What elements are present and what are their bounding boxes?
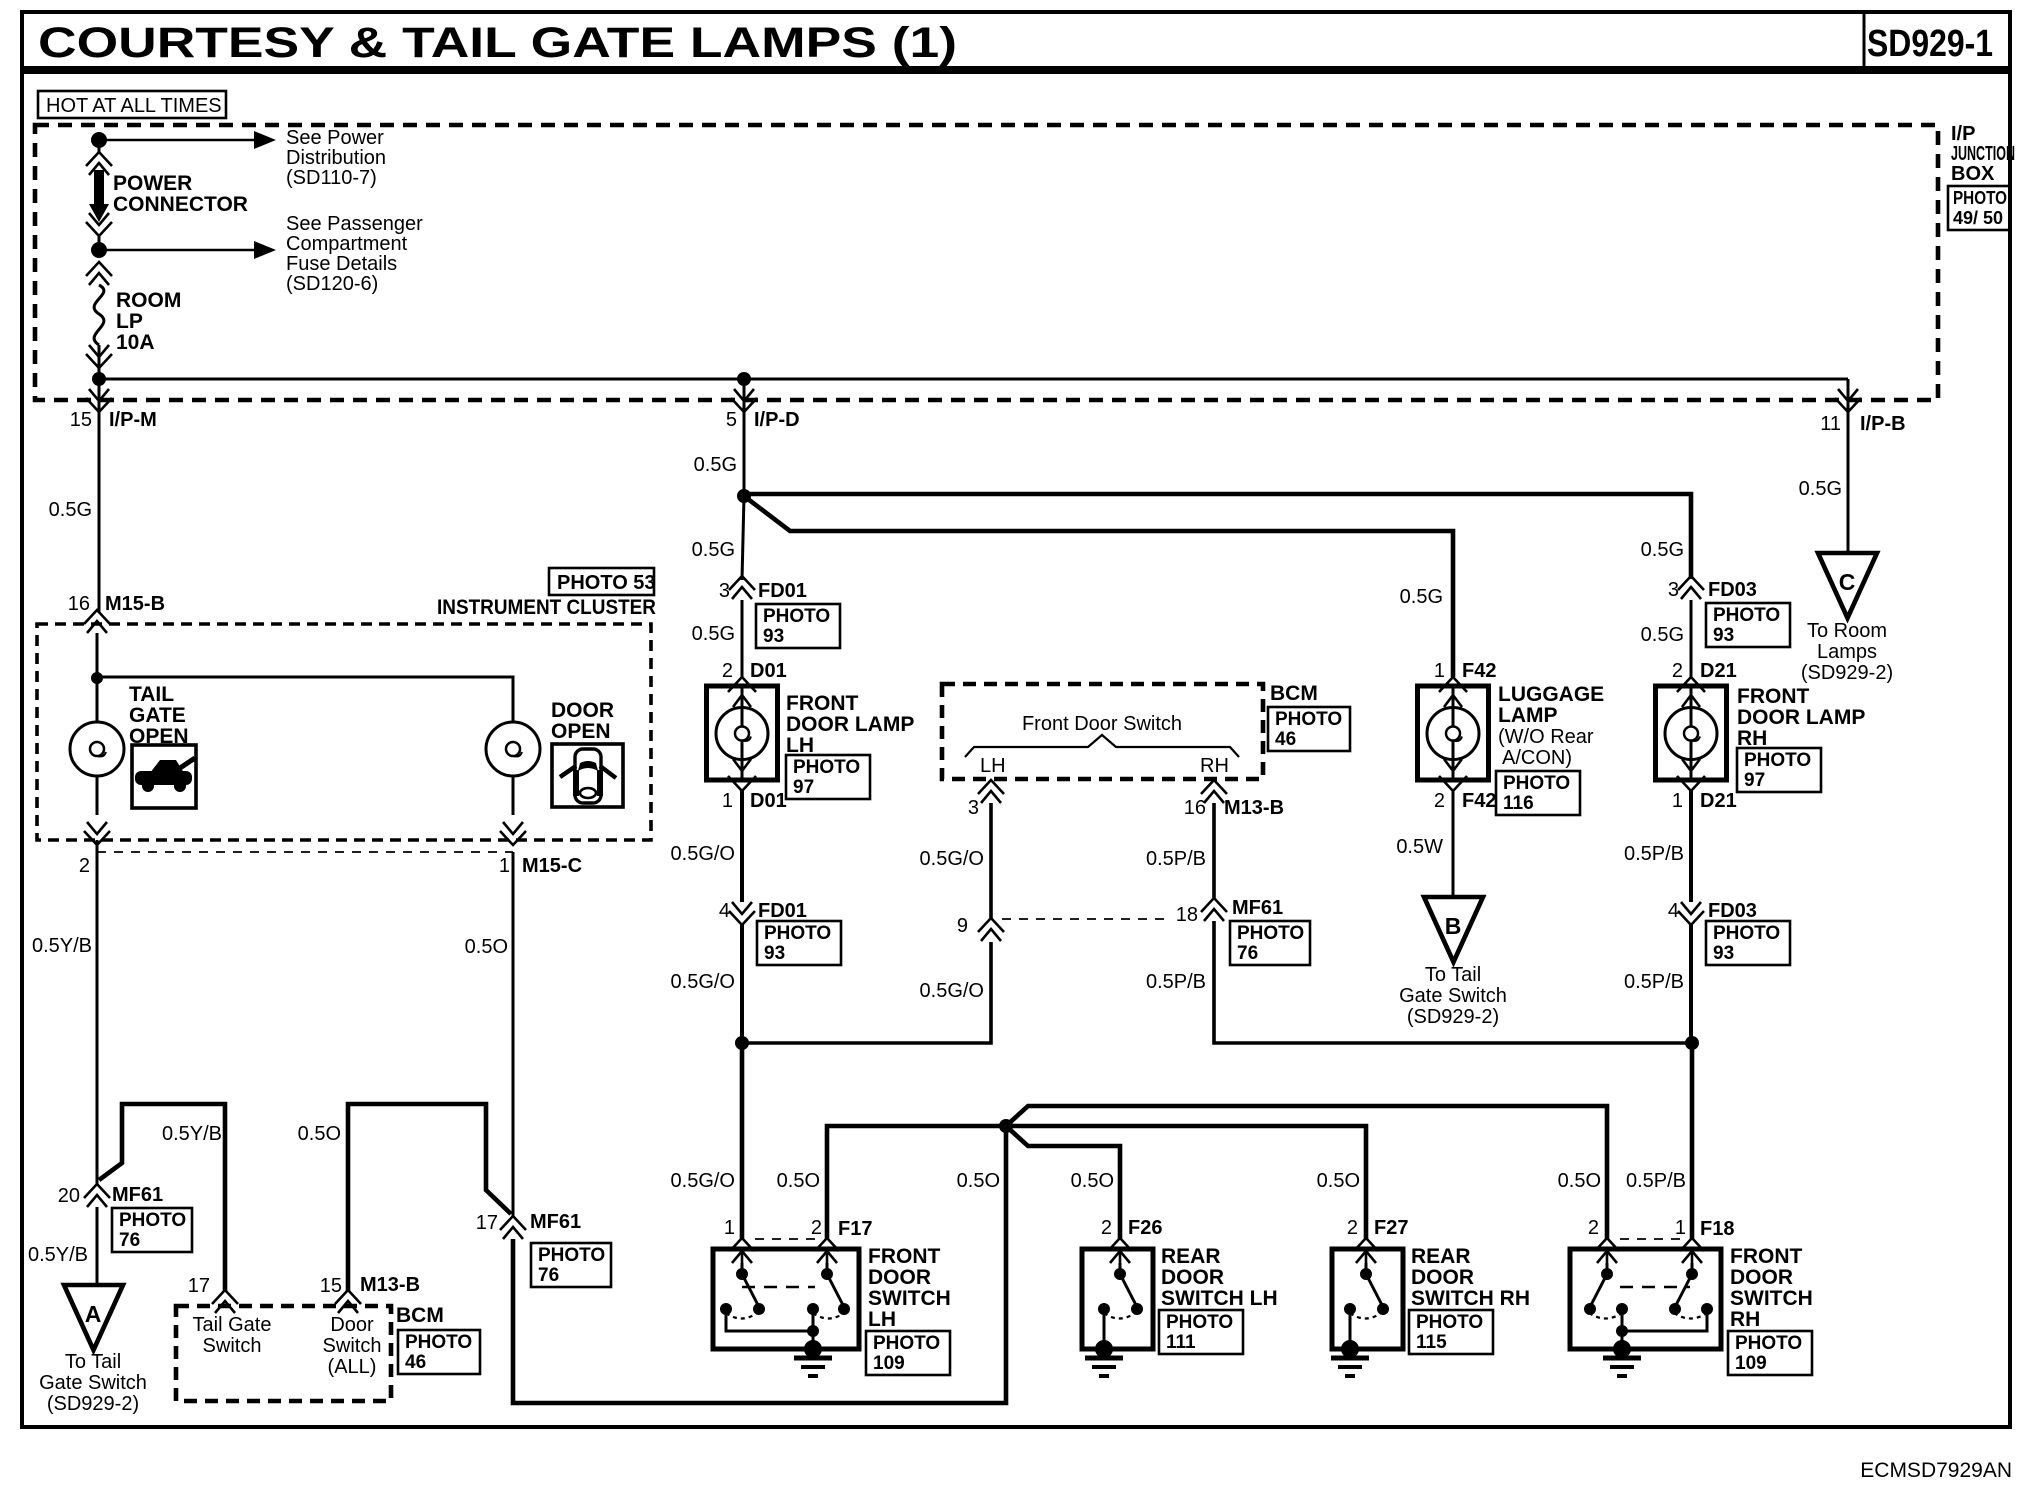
svg-text:FD01: FD01: [758, 900, 807, 922]
svg-text:0.5P/B: 0.5P/B: [1624, 971, 1684, 993]
svg-text:0.5O: 0.5O: [777, 1170, 820, 1192]
svg-text:76: 76: [119, 1230, 140, 1251]
svg-text:REAR: REAR: [1161, 1245, 1221, 1268]
node: door switch star junction: [999, 1119, 1013, 1133]
svg-text:SD929-1: SD929-1: [1867, 23, 1993, 65]
svg-text:D21: D21: [1700, 660, 1737, 682]
svg-text:DOOR LAMP: DOOR LAMP: [1737, 706, 1865, 729]
svg-text:PHOTO 53: PHOTO 53: [557, 572, 656, 594]
wire to F17 pin 2: [827, 1126, 1006, 1240]
lamp FRONT DOOR LAMP RH: [1656, 686, 1727, 780]
svg-text:2: 2: [811, 1217, 822, 1239]
pin 17: [212, 1290, 238, 1304]
brace: [965, 735, 1239, 757]
svg-text:109: 109: [873, 1353, 905, 1374]
svg-text:DOOR LAMP: DOOR LAMP: [786, 713, 914, 736]
svg-text:SWITCH LH: SWITCH LH: [1161, 1287, 1278, 1310]
off-page triangle A: [64, 1285, 123, 1350]
svg-text:(SD929-2): (SD929-2): [1407, 1006, 1499, 1028]
svg-text:0.5Y/B: 0.5Y/B: [28, 1244, 88, 1266]
svg-text:F42: F42: [1462, 660, 1496, 682]
wire 0.5G from I/P-D: [743, 412, 746, 496]
svg-text:SWITCH: SWITCH: [868, 1287, 951, 1310]
HOT AT ALL TIMES label: [38, 91, 226, 118]
connector I/P-B pin 11: [1847, 379, 1850, 412]
svg-text:0.5G: 0.5G: [1799, 478, 1842, 500]
photo ref 49/50: [1948, 186, 2010, 230]
connector I/P-D pin 5: [743, 379, 746, 412]
svg-text:LH: LH: [868, 1308, 896, 1331]
connector M15-C group dash: [97, 851, 513, 853]
svg-text:PHOTO: PHOTO: [1713, 923, 1780, 944]
svg-text:I/P-B: I/P-B: [1860, 413, 1906, 435]
svg-text:1: 1: [1672, 790, 1683, 812]
svg-text:LUGGAGE: LUGGAGE: [1498, 683, 1604, 706]
ground G (F26): [1095, 1340, 1113, 1358]
F17 pin 1: [730, 1238, 754, 1251]
wire from BCM pin 3 joins: [742, 942, 991, 1043]
svg-text:0.5P/B: 0.5P/B: [1146, 848, 1206, 870]
svg-text:2: 2: [1101, 1217, 1112, 1239]
node: LH switch feed junction: [735, 1036, 749, 1050]
ground G (F27): [1341, 1340, 1359, 1358]
svg-text:3: 3: [719, 580, 730, 602]
svg-text:A/CON): A/CON): [1502, 747, 1572, 769]
svg-text:3: 3: [1668, 579, 1679, 601]
svg-text:Distribution: Distribution: [286, 147, 386, 169]
svg-text:PHOTO: PHOTO: [405, 1332, 472, 1353]
connector I/P-M pin 15: [98, 379, 101, 412]
connector FD01 pin 3: [729, 576, 755, 590]
svg-text:BOX: BOX: [1951, 163, 1995, 185]
svg-text:(W/O Rear: (W/O Rear: [1498, 726, 1594, 748]
svg-text:C: C: [1839, 569, 1856, 595]
node: RH switch feed junction: [1685, 1036, 1699, 1050]
svg-text:FD03: FD03: [1708, 900, 1757, 922]
svg-text:SWITCH: SWITCH: [1730, 1287, 1813, 1310]
F26 pin 2: [1108, 1238, 1132, 1251]
svg-text:PHOTO: PHOTO: [1735, 1333, 1802, 1354]
svg-text:POWER: POWER: [113, 172, 192, 195]
F27 contacts: [1344, 1303, 1356, 1315]
svg-text:20: 20: [58, 1185, 80, 1207]
svg-text:0.5P/B: 0.5P/B: [1146, 971, 1206, 993]
svg-text:0.5G/O: 0.5G/O: [671, 1170, 735, 1192]
svg-text:OPEN: OPEN: [551, 720, 611, 743]
svg-text:PHOTO: PHOTO: [119, 1210, 186, 1231]
svg-text:ROOM: ROOM: [116, 289, 181, 312]
cluster exit chevrons: [84, 831, 110, 845]
node: main bus junction: [92, 372, 106, 386]
BCM pin 16 M13-B: [1201, 780, 1227, 794]
wire: arrow to See Power Distribution: [99, 139, 254, 142]
svg-text:0.5O: 0.5O: [957, 1170, 1000, 1192]
svg-text:SWITCH RH: SWITCH RH: [1411, 1287, 1530, 1310]
svg-text:A: A: [85, 1301, 102, 1327]
pin 15 M13-B: [335, 1290, 361, 1304]
svg-text:F27: F27: [1374, 1217, 1408, 1239]
photo ref 53: [549, 568, 654, 595]
svg-text:(SD929-2): (SD929-2): [47, 1393, 139, 1415]
svg-text:I/P-D: I/P-D: [754, 409, 800, 431]
wire to door open lamp: [97, 677, 513, 722]
connector MF61 pin 9: [978, 918, 1004, 932]
fuse ROOM LP 10A: [86, 262, 112, 276]
wire down to F17: [740, 1043, 745, 1240]
svg-text:0.5O: 0.5O: [298, 1123, 341, 1145]
wire 0.5G to M15-B: [98, 412, 101, 612]
svg-text:See Power: See Power: [286, 127, 384, 149]
svg-text:0.5G: 0.5G: [694, 454, 737, 476]
svg-text:MF61: MF61: [530, 1211, 581, 1233]
wire 0.5G to C: [1847, 412, 1850, 553]
svg-text:BCM: BCM: [396, 1304, 444, 1327]
svg-text:Gate Switch: Gate Switch: [1399, 985, 1507, 1007]
svg-text:Switch: Switch: [323, 1335, 382, 1357]
connector MF61 pin 18: [1201, 898, 1227, 912]
F26 pole blade: [1119, 1263, 1122, 1274]
F17 pole 2 blade: [826, 1263, 829, 1274]
svg-text:16: 16: [1184, 797, 1206, 819]
svg-text:0.5G/O: 0.5G/O: [920, 848, 984, 870]
F27 pole blade: [1365, 1263, 1368, 1274]
svg-text:109: 109: [1735, 1353, 1767, 1374]
svg-text:3: 3: [968, 797, 979, 819]
lamp DOOR OPEN: [512, 722, 515, 815]
F18 pole 2 blade: [1606, 1263, 1609, 1274]
switch REAR DOOR SWITCH LH (F26): [1082, 1249, 1153, 1349]
connector FD03 pin 3: [1678, 576, 1704, 590]
F27 pin 2: [1354, 1238, 1378, 1251]
svg-text:LP: LP: [116, 310, 143, 333]
svg-text:To Tail: To Tail: [1425, 964, 1481, 986]
svg-text:PHOTO: PHOTO: [1275, 709, 1342, 730]
connector D01 pin 1: [728, 776, 756, 791]
F17 pin 2: [815, 1238, 839, 1251]
wire 0.5O from cluster: [512, 852, 515, 1216]
wire to F18 pin 2: [1006, 1106, 1607, 1240]
wire: main power bus: [99, 378, 1848, 381]
svg-text:HOT AT ALL TIMES: HOT AT ALL TIMES: [46, 95, 222, 117]
svg-text:1: 1: [499, 855, 510, 877]
svg-text:9: 9: [957, 915, 968, 937]
node: cluster branch junction: [91, 672, 103, 684]
svg-text:0.5P/B: 0.5P/B: [1626, 1170, 1686, 1192]
lamp LUGGAGE LAMP: [1418, 686, 1489, 780]
svg-text:0.5P/B: 0.5P/B: [1624, 843, 1684, 865]
F17 linkage (dashed): [742, 1286, 815, 1289]
svg-text:0.5O: 0.5O: [1317, 1170, 1360, 1192]
svg-text:0.5W: 0.5W: [1396, 836, 1443, 858]
F18 pin 2: [1595, 1238, 1619, 1251]
svg-text:BCM: BCM: [1270, 682, 1318, 705]
svg-text:Compartment: Compartment: [286, 233, 408, 255]
svg-text:Switch: Switch: [203, 1335, 262, 1357]
svg-text:76: 76: [538, 1265, 559, 1286]
connector D21 pin 1: [1677, 776, 1705, 791]
svg-text:1: 1: [1434, 660, 1445, 682]
BCM pin 3: [978, 780, 1004, 794]
svg-text:116: 116: [1503, 793, 1534, 814]
svg-text:F26: F26: [1128, 1217, 1162, 1239]
svg-text:FRONT: FRONT: [1737, 685, 1809, 708]
svg-text:18: 18: [1176, 904, 1198, 926]
svg-text:See Passenger: See Passenger: [286, 213, 423, 235]
svg-text:0.5G/O: 0.5G/O: [920, 980, 984, 1002]
svg-text:F42: F42: [1462, 790, 1496, 812]
svg-text:115: 115: [1416, 1332, 1447, 1353]
svg-text:97: 97: [793, 777, 814, 798]
svg-text:93: 93: [1713, 943, 1734, 964]
svg-text:COURTESY & TAIL GATE LAMPS (1): COURTESY & TAIL GATE LAMPS (1): [38, 19, 957, 67]
svg-text:0.5G/O: 0.5G/O: [671, 843, 735, 865]
svg-text:RH: RH: [1200, 755, 1229, 777]
svg-text:RH: RH: [1737, 727, 1767, 750]
connector D01 pin 2: [728, 677, 756, 692]
wire branch to front door lamp RH: [744, 494, 1691, 579]
wire 0.5G/O from pin 3: [989, 803, 993, 918]
ground G (F17): [804, 1340, 822, 1358]
svg-text:M13-B: M13-B: [1224, 797, 1284, 819]
wire to F26 pin 2: [1006, 1126, 1120, 1240]
connector D21 pin 2: [1677, 677, 1705, 692]
svg-text:17: 17: [188, 1275, 210, 1297]
svg-text:2: 2: [1434, 790, 1445, 812]
svg-text:2: 2: [79, 855, 90, 877]
svg-text:0.5O: 0.5O: [1558, 1170, 1601, 1192]
icon: door open car: [552, 744, 623, 807]
svg-text:FRONT: FRONT: [786, 692, 858, 715]
svg-text:17: 17: [476, 1212, 498, 1234]
switch REAR DOOR SWITCH RH (F27): [1332, 1249, 1403, 1349]
svg-text:To Tail: To Tail: [65, 1351, 121, 1373]
svg-text:0.5G: 0.5G: [1641, 624, 1684, 646]
svg-text:D01: D01: [750, 660, 787, 682]
svg-text:0.5G: 0.5G: [692, 623, 735, 645]
wire down to F18 pin 1: [1690, 1043, 1695, 1240]
wire to RH junction: [1214, 921, 1692, 1043]
svg-text:76: 76: [1237, 943, 1258, 964]
svg-text:46: 46: [405, 1352, 426, 1373]
svg-text:1: 1: [722, 790, 733, 812]
F18 pole 1 blade: [1691, 1263, 1694, 1274]
svg-text:PHOTO: PHOTO: [1166, 1312, 1233, 1333]
svg-text:JUNCTION: JUNCTION: [1951, 143, 2015, 165]
wire 0.5P/B from pin 16: [1212, 803, 1216, 898]
svg-text:DOOR: DOOR: [1730, 1266, 1793, 1289]
connector MF61 pin 17: [500, 1216, 526, 1230]
lamp TAIL GATE OPEN: [96, 678, 99, 815]
svg-text:M13-B: M13-B: [360, 1274, 420, 1296]
svg-text:Tail Gate: Tail Gate: [193, 1314, 272, 1336]
svg-text:MF61: MF61: [1232, 897, 1283, 919]
F18 linkage (dashed): [1620, 1286, 1690, 1289]
svg-text:F17: F17: [838, 1218, 872, 1240]
svg-text:DOOR: DOOR: [868, 1266, 931, 1289]
svg-text:Door: Door: [330, 1314, 374, 1336]
BCM pin15 hook wire: [348, 1104, 511, 1292]
BCM box (dashed): [176, 1306, 391, 1401]
svg-text:2: 2: [1672, 660, 1683, 682]
svg-text:PHOTO: PHOTO: [1953, 188, 2007, 208]
svg-text:To Room: To Room: [1807, 620, 1887, 642]
svg-text:FRONT: FRONT: [1730, 1245, 1802, 1268]
svg-text:PHOTO: PHOTO: [764, 923, 831, 944]
icon: tail gate open car: [132, 745, 196, 808]
svg-text:15: 15: [70, 409, 92, 431]
ground G (F18): [1613, 1340, 1631, 1358]
svg-text:Gate Switch: Gate Switch: [39, 1372, 147, 1394]
svg-text:93: 93: [763, 626, 784, 647]
svg-text:0.5G: 0.5G: [49, 499, 92, 521]
svg-text:PHOTO: PHOTO: [1713, 605, 1780, 626]
connector FD03 pin 4: [1678, 911, 1704, 925]
I/P junction box (dashed): [35, 125, 1938, 400]
BCM front door switch box (dashed): [942, 684, 1263, 779]
svg-text:RH: RH: [1730, 1308, 1760, 1331]
svg-text:DOOR: DOOR: [551, 699, 614, 722]
svg-text:FD03: FD03: [1708, 579, 1757, 601]
connector F42 pin 2: [1439, 776, 1467, 791]
F18 internal wire: [1622, 1309, 1707, 1331]
svg-text:93: 93: [764, 943, 785, 964]
node: fuse feed junction: [91, 242, 107, 258]
F18 contacts: [1616, 1303, 1628, 1315]
svg-text:MF61: MF61: [112, 1184, 163, 1206]
F26 contacts: [1098, 1303, 1110, 1315]
svg-text:LH: LH: [980, 755, 1006, 777]
svg-text:46: 46: [1275, 729, 1296, 750]
power connector symbol: [86, 152, 112, 166]
svg-text:TAIL: TAIL: [129, 683, 174, 706]
F18 pin 1: [1680, 1238, 1704, 1251]
svg-text:0.5O: 0.5O: [1071, 1170, 1114, 1192]
svg-text:ECMSD7929AN: ECMSD7929AN: [1860, 1459, 2012, 1482]
svg-text:0.5G: 0.5G: [692, 539, 735, 561]
svg-text:FD01: FD01: [758, 580, 807, 602]
svg-text:FRONT: FRONT: [868, 1245, 940, 1268]
svg-text:1: 1: [724, 1217, 735, 1239]
F17 internal wire: [726, 1309, 813, 1331]
svg-text:REAR: REAR: [1411, 1245, 1471, 1268]
wire 0.5Y/B: [96, 852, 99, 1184]
svg-text:0.5G/O: 0.5G/O: [671, 971, 735, 993]
F17 contacts: [720, 1303, 732, 1315]
svg-text:B: B: [1445, 913, 1462, 939]
svg-text:PHOTO: PHOTO: [1744, 750, 1811, 771]
svg-text:PHOTO: PHOTO: [873, 1333, 940, 1354]
svg-text:LAMP: LAMP: [1498, 704, 1558, 727]
svg-text:PHOTO: PHOTO: [1503, 773, 1570, 794]
hook wire to BCM pin 17: [99, 1104, 225, 1292]
svg-text:D01: D01: [750, 790, 787, 812]
svg-text:M15-C: M15-C: [522, 855, 582, 877]
svg-text:49/ 50: 49/ 50: [1953, 208, 2003, 228]
svg-text:GATE: GATE: [129, 704, 186, 727]
wire branch to luggage lamp: [744, 496, 1453, 677]
svg-text:0.5O: 0.5O: [465, 936, 508, 958]
svg-text:2: 2: [722, 660, 733, 682]
svg-text:PHOTO: PHOTO: [1237, 923, 1304, 944]
wire: arrow to fuse details note: [99, 249, 254, 252]
svg-text:I/P-M: I/P-M: [109, 409, 157, 431]
svg-text:97: 97: [1744, 770, 1765, 791]
F17 pole 1 blade: [741, 1263, 744, 1274]
svg-text:(ALL): (ALL): [328, 1356, 377, 1378]
svg-text:PHOTO: PHOTO: [538, 1245, 605, 1266]
svg-text:PHOTO: PHOTO: [1416, 1312, 1483, 1333]
svg-text:2: 2: [1347, 1217, 1358, 1239]
wire to bottom run: [513, 1126, 1006, 1403]
wire segment: [98, 236, 101, 250]
svg-text:(SD110-7): (SD110-7): [286, 167, 377, 189]
svg-text:5: 5: [726, 409, 737, 431]
connector F42 pin 1: [1439, 677, 1467, 692]
wire 0.5G: [742, 496, 744, 580]
svg-text:CONNECTOR: CONNECTOR: [113, 193, 248, 216]
off-page triangle B: [1424, 897, 1483, 962]
svg-text:PHOTO: PHOTO: [763, 606, 830, 627]
wire to F27 pin 2: [1006, 1126, 1366, 1240]
off-page triangle C: [1818, 553, 1877, 618]
svg-text:11: 11: [1820, 413, 1841, 435]
svg-text:0.5G: 0.5G: [1400, 586, 1443, 608]
svg-text:111: 111: [1166, 1332, 1196, 1353]
svg-text:0.5Y/B: 0.5Y/B: [162, 1123, 222, 1145]
svg-text:93: 93: [1713, 625, 1734, 646]
svg-text:Fuse Details: Fuse Details: [286, 253, 397, 275]
svg-text:DOOR: DOOR: [1161, 1266, 1224, 1289]
svg-text:2: 2: [1588, 1217, 1599, 1239]
svg-text:INSTRUMENT CLUSTER: INSTRUMENT CLUSTER: [437, 596, 656, 619]
connector FD01 pin 4: [729, 911, 755, 925]
lamp FRONT DOOR LAMP LH: [707, 686, 778, 780]
svg-text:Front Door Switch: Front Door Switch: [1022, 713, 1182, 735]
svg-text:0.5G: 0.5G: [1641, 539, 1684, 561]
svg-text:M15-B: M15-B: [105, 593, 165, 615]
node: 0.5G distribution junction: [737, 489, 751, 503]
svg-text:0.5Y/B: 0.5Y/B: [32, 935, 92, 957]
svg-text:Lamps: Lamps: [1817, 641, 1877, 663]
svg-text:(SD929-2): (SD929-2): [1801, 662, 1893, 684]
svg-text:I/P: I/P: [1951, 123, 1975, 145]
svg-text:15: 15: [320, 1275, 342, 1297]
switch FRONT DOOR SWITCH LH (F17): [713, 1249, 859, 1349]
svg-text:4: 4: [1668, 900, 1679, 922]
connector M15-B pin 16: [84, 610, 110, 624]
svg-text:4: 4: [719, 900, 730, 922]
svg-text:LH: LH: [786, 734, 814, 757]
svg-text:10A: 10A: [116, 331, 155, 354]
svg-text:16: 16: [68, 593, 90, 615]
svg-text:PHOTO: PHOTO: [793, 757, 860, 778]
svg-text:DOOR: DOOR: [1411, 1266, 1474, 1289]
connector MF61 pin 20: [84, 1184, 110, 1198]
svg-text:(SD120-6): (SD120-6): [286, 273, 378, 295]
instrument cluster box (dashed): [37, 624, 651, 840]
node: hot feed junction: [98, 140, 101, 152]
svg-text:1: 1: [1675, 1217, 1686, 1239]
svg-text:F18: F18: [1700, 1218, 1734, 1240]
svg-text:D21: D21: [1700, 790, 1737, 812]
switch FRONT DOOR SWITCH RH (F18): [1570, 1249, 1721, 1349]
